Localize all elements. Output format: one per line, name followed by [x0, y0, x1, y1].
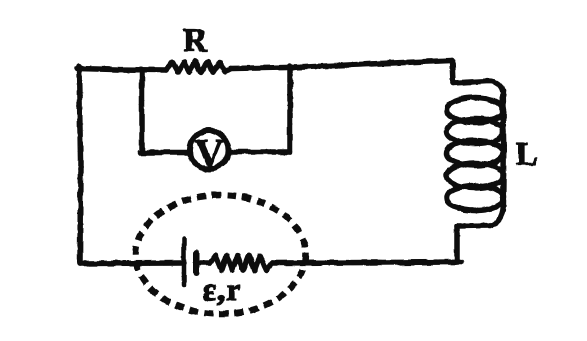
wire: inductor bottom lead [457, 201, 504, 226]
svg-text:L: L [516, 136, 537, 172]
wire: right-bottom corner drop to bottom rail [454, 226, 460, 260]
label R [183, 23, 208, 59]
wire: bottom rail right segment (inductor to internal resistance) [272, 262, 461, 263]
wire: right-top corner drop to inductor lead [452, 61, 453, 84]
wire: voltmeter branch right vertical rise [287, 66, 293, 152]
inductor L coil turn 4 [447, 163, 504, 188]
dashed ellipse: boundary of real cell (emf source) [136, 195, 306, 314]
svg-text:ε,r: ε,r [203, 271, 242, 307]
voltmeter V letter [195, 131, 224, 176]
inductor L coil turn 5 [447, 186, 504, 211]
wire: inductor right-side return column [503, 96, 504, 201]
wire: voltmeter branch bottom-right horizontal [229, 149, 290, 155]
wire: voltmeter branch left vertical drop [139, 72, 145, 152]
wire: top-right horizontal segment (R to inductor corner) [231, 61, 452, 69]
wire: bottom rail left segment (left rail to battery) [80, 260, 184, 266]
voltmeter V (circle) [190, 131, 229, 170]
inductor L coil turn 3 [447, 141, 504, 166]
label epsilon,r (emf and internal resistance) [203, 271, 242, 307]
wire: top-left horizontal segment (node between R and left rail) [77, 69, 166, 71]
wire: battery short-plate lead [197, 260, 210, 266]
svg-text:V: V [195, 131, 224, 176]
inductor L coil turn 1 [447, 98, 504, 123]
inductor L coil turn 2 [447, 119, 504, 144]
wire: voltmeter branch bottom-left horizontal [140, 150, 190, 156]
battery cell: long plate [182, 239, 187, 286]
wire: inductor top lead [453, 81, 503, 94]
wire: left rail vertical [79, 66, 81, 264]
resistor r (internal resistance of cell) [210, 255, 272, 271]
resistor R [166, 62, 231, 73]
battery cell: short plate [194, 253, 200, 274]
svg-text:R: R [183, 23, 208, 59]
label L [516, 136, 537, 172]
